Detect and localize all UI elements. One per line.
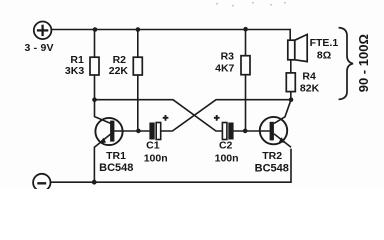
- svg-text:R3: R3: [221, 51, 235, 63]
- svg-text:22K: 22K: [109, 65, 129, 77]
- svg-text:4K7: 4K7: [215, 62, 234, 74]
- svg-text:BC548: BC548: [255, 162, 289, 174]
- svg-text:BC548: BC548: [99, 162, 133, 174]
- svg-text:C1: C1: [146, 139, 160, 151]
- svg-text:FTE.1: FTE.1: [310, 37, 339, 49]
- svg-text:100n: 100n: [215, 153, 239, 165]
- svg-text:TR1: TR1: [106, 150, 126, 162]
- svg-text:90 - 100Ω: 90 - 100Ω: [356, 34, 371, 92]
- svg-text:C2: C2: [219, 139, 233, 151]
- svg-text:R4: R4: [302, 70, 316, 82]
- svg-text:TR2: TR2: [262, 150, 282, 162]
- svg-text:8Ω: 8Ω: [317, 50, 331, 62]
- svg-text:82K: 82K: [300, 82, 320, 94]
- svg-text:3 - 9V: 3 - 9V: [25, 42, 54, 54]
- svg-text:3K3: 3K3: [65, 65, 84, 77]
- svg-text:100n: 100n: [144, 153, 168, 165]
